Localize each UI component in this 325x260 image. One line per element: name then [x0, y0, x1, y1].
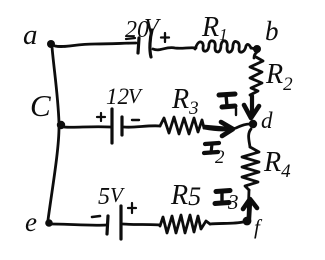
- node b: [253, 16, 279, 53]
- svg-text:2: 2: [215, 147, 225, 168]
- node f: [243, 215, 263, 239]
- current arrow I2: [205, 122, 233, 136]
- svg-text:d: d: [261, 108, 273, 133]
- wire d to R4: [249, 129, 251, 147]
- svg-text:R1: R1: [201, 12, 228, 44]
- svg-text:3: 3: [227, 190, 239, 214]
- node e: [25, 207, 53, 237]
- svg-text:C: C: [30, 88, 51, 123]
- resistor R2: [250, 57, 293, 95]
- svg-text:5: 5: [98, 184, 110, 210]
- svg-text:V: V: [144, 15, 161, 41]
- svg-text:R3: R3: [171, 84, 199, 119]
- wire a to battery V1: [55, 43, 136, 47]
- current arrow I1: [244, 96, 259, 118]
- battery V1 20V: [125, 15, 169, 57]
- wire C to e: [48, 127, 59, 220]
- battery V2 12V: [97, 84, 143, 143]
- resistor R3: [160, 84, 204, 134]
- wire R5 to battery V3: [123, 224, 160, 225]
- battery V3 5V: [92, 183, 136, 239]
- wire R2 to node d: [251, 95, 254, 106]
- resistor R4: [242, 147, 291, 190]
- svg-text:V: V: [128, 84, 143, 108]
- wire f to R5: [210, 222, 243, 224]
- svg-text:R5: R5: [170, 180, 201, 211]
- label I3: [215, 190, 239, 214]
- svg-text:V: V: [110, 183, 125, 207]
- svg-text:R4: R4: [263, 147, 291, 182]
- node C: [30, 88, 65, 129]
- current arrow I3: [243, 199, 257, 219]
- resistor R5: [160, 180, 210, 233]
- wire battery V1 to R1: [153, 48, 196, 50]
- label I1: [219, 94, 236, 115]
- svg-text:12: 12: [106, 84, 129, 109]
- resistor R1: [195, 12, 251, 52]
- svg-text:e: e: [25, 207, 37, 237]
- node a: [23, 19, 55, 51]
- wire battery V3 to node e: [52, 224, 106, 225]
- wire R4 to node f: [248, 190, 249, 218]
- wire b to R2: [254, 52, 257, 58]
- svg-text:a: a: [23, 19, 38, 51]
- svg-text:b: b: [265, 16, 279, 46]
- wire a to C: [52, 47, 59, 123]
- wire C to battery V2: [64, 125, 110, 128]
- label I2: [204, 143, 225, 168]
- wire R1 to node b: [251, 48, 256, 49]
- wire battery V2 to R3: [124, 126, 160, 127]
- svg-text:f: f: [254, 215, 263, 239]
- wire R3 to node d: [204, 124, 250, 130]
- node d: [249, 108, 273, 133]
- svg-text:R2: R2: [265, 59, 293, 95]
